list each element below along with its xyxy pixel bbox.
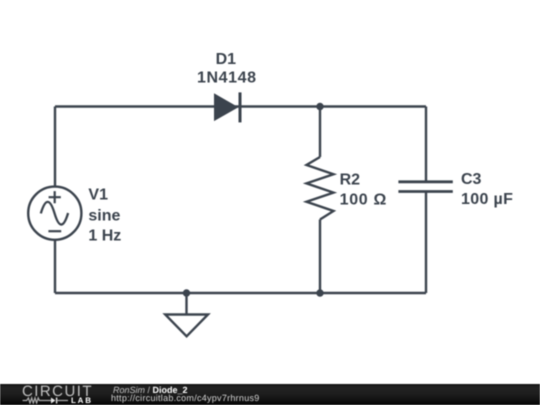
svg-text:100 µF: 100 µF (461, 191, 513, 208)
svg-text:sine: sine (88, 208, 120, 225)
svg-text:V1: V1 (88, 186, 108, 203)
svg-text:D1: D1 (216, 51, 237, 68)
svg-text:1N4148: 1N4148 (197, 70, 257, 87)
svg-text:R2: R2 (340, 171, 361, 188)
svg-text:100 Ω: 100 Ω (340, 191, 387, 208)
svg-text:1 Hz: 1 Hz (88, 228, 121, 245)
svg-text:C3: C3 (461, 171, 482, 188)
